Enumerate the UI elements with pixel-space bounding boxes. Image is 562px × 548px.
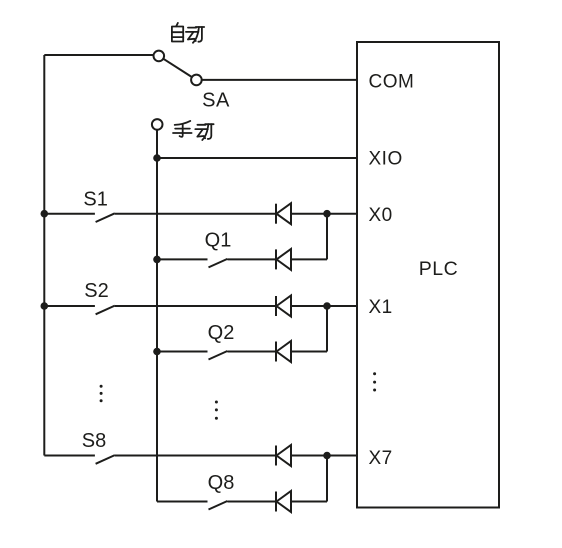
ellipsis dots (middle column): [215, 401, 218, 420]
wire: Q2 riser up to X1 node: [326, 306, 328, 352]
wire: S2 row left segment: [44, 305, 95, 307]
svg-text:S1: S1: [83, 189, 107, 211]
label 自动 (auto): [172, 23, 204, 43]
junction dot: X0 node: [323, 210, 331, 218]
svg-text:Q1: Q1: [205, 230, 232, 252]
wire: Q1 diode to riser: [291, 258, 327, 260]
wire: Q2 row left segment: [157, 351, 208, 353]
switch SA common contact circle: [191, 75, 202, 86]
svg-text:X7: X7: [369, 448, 393, 469]
switch manual contact circle: [152, 119, 163, 130]
wire: S1 row to diode: [115, 213, 276, 215]
wire: S1 row left segment: [44, 213, 95, 215]
label 手动 (manual): [173, 121, 214, 140]
wire: manual vertical bus: [156, 130, 158, 502]
wire: Q1 riser up to X0 node: [326, 214, 328, 260]
switch Q8 blade: [209, 501, 228, 510]
wire: left vertical bus: [43, 55, 45, 456]
svg-text:Q2: Q2: [208, 322, 235, 344]
switch SA blade: [163, 59, 192, 77]
svg-text:X1: X1: [369, 297, 393, 318]
switch S2 blade: [96, 306, 115, 315]
switch S1 blade: [96, 213, 115, 222]
junction dot: manual bus / Q1 row: [153, 256, 161, 264]
diode (Q1 row): [276, 249, 291, 270]
wire: S8 diode to junction: [291, 455, 327, 457]
ellipsis dots (left column): [100, 385, 103, 402]
wire: XIO row: [157, 157, 357, 159]
junction dot: manual bus / XIO row: [153, 154, 161, 162]
svg-text:X0: X0: [369, 205, 393, 226]
switch Q1 blade: [209, 259, 228, 268]
wire: S2 diode to junction: [291, 305, 327, 307]
svg-text:Q8: Q8: [208, 472, 235, 494]
svg-text:COM: COM: [369, 71, 415, 92]
wire: top horizontal to SA auto contact: [44, 54, 153, 56]
junction dot: left bus / S2 row: [41, 302, 49, 310]
wire: S1 diode to junction: [291, 213, 327, 215]
wire: X1 node to PLC: [327, 305, 357, 307]
switch S8 blade: [96, 455, 115, 464]
diode (Q2 row): [276, 341, 291, 362]
diode (S2 row): [276, 296, 291, 317]
ellipsis dots (right column inside PLC): [373, 372, 376, 391]
svg-text:S8: S8: [82, 430, 106, 452]
wire: X0 node to PLC: [327, 213, 357, 215]
junction dot: manual bus / Q2 row: [153, 348, 161, 356]
diode (Q8 row): [276, 491, 291, 512]
wire: Q1 row left segment: [157, 258, 208, 260]
wire: S2 row to diode: [115, 305, 276, 307]
wire: Q2 diode to riser: [291, 351, 327, 353]
wire: Q2 row to diode: [227, 351, 276, 353]
junction dot: left bus / S1 row: [41, 210, 49, 218]
svg-text:S2: S2: [84, 280, 108, 302]
switch Q2 blade: [209, 351, 228, 360]
diode (S8 row): [276, 445, 291, 466]
diode (S1 row): [276, 203, 291, 224]
PLC box U1: [357, 42, 499, 508]
wire: Q8 riser up to X7 node: [326, 456, 328, 502]
wire: Q8 row left segment: [157, 501, 208, 503]
wire: SA common to COM pin: [202, 79, 357, 81]
svg-text:PLC: PLC: [419, 258, 458, 280]
wire: Q8 diode to riser: [291, 501, 327, 503]
wire: Q8 row to diode: [227, 501, 276, 503]
svg-text:SA: SA: [202, 89, 230, 111]
junction dot: X7 node: [323, 452, 331, 460]
wire: S8 row left segment: [44, 455, 95, 457]
wire: S8 row to diode: [115, 455, 276, 457]
switch SA auto contact circle: [154, 51, 165, 62]
wire: X7 node to PLC: [327, 455, 357, 457]
junction dot: X1 node: [323, 302, 331, 310]
wire: Q1 row to diode: [227, 258, 276, 260]
svg-text:XIO: XIO: [369, 149, 403, 170]
